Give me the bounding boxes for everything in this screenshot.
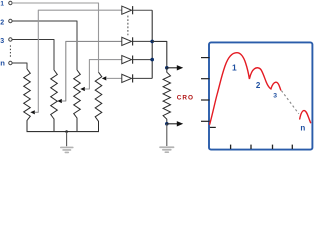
diode D4 [122,74,133,82]
potentiometer R3 body [74,70,81,132]
CRO top connection arrow [177,65,183,70]
input terminal n [9,61,12,64]
vertical axis tick 3 [201,99,210,101]
svg-text:3: 3 [273,92,277,99]
potentiometer R4 body [95,72,102,131]
diode D3 [122,56,133,64]
input terminal 2 [9,19,12,22]
wire from terminal 1 to top of potentiometer R4 [12,3,98,72]
horizontal axis tick 1 [230,145,232,149]
wire from terminal 2 to top of potentiometer R3 [12,21,77,70]
potentiometer R1 body [24,69,31,132]
junction at bus and D2 [150,40,154,44]
potentiometer R1 wiper arrow [30,110,35,114]
ellipsis dashed line between D1 and D2 [127,16,129,36]
potentiometer R2 wiper arrow [57,99,62,103]
wire D4 cathode to output bus [133,77,153,79]
potentiometer R2 body [51,70,58,132]
waveform trace peak n [300,111,311,123]
waveform trace peaks 1 to 3 [210,53,281,125]
wire from bus to CRO branch [152,41,167,67]
output bus vertical wire [151,10,153,78]
junction node CRO top [165,66,169,70]
dashed continuation between peak 3 and peak n [281,91,298,114]
CRO bottom connection arrow [177,121,183,126]
resistor R5 (CRO load) [163,68,170,124]
vertical axis tick 1 [201,57,210,59]
CRO screen frame [209,42,312,149]
ground symbol left [60,147,74,154]
bottom common wire joining potentiometer bottoms [27,131,100,133]
svg-text:3: 3 [0,38,4,45]
ground symbol right [159,146,174,153]
horizontal axis tick 3 [272,145,274,149]
junction at bus and D3 [150,58,154,62]
diode D2 [122,37,133,45]
potentiometer R4 wiper arrow [102,76,107,80]
wire from R4 wiper to diode D4 anode [106,77,122,79]
svg-text:1: 1 [0,0,4,7]
wire stub to CRO bottom arrow [167,123,177,125]
diode D1 [122,6,133,14]
wire CRO bottom node to ground [166,124,168,146]
svg-text:CRO: CRO [177,95,194,102]
vertical axis tick 4 [201,120,210,122]
wire D3 cathode to output bus [133,59,153,61]
wire common bus to ground [66,132,68,147]
wire from R1 wiper up to diode D1 anode [35,10,122,112]
wire from R2 wiper up to diode D2 anode [62,41,122,101]
input terminal 3 [9,38,12,41]
svg-text:n: n [300,123,305,132]
svg-text:1: 1 [232,63,237,73]
svg-text:2: 2 [256,81,261,90]
wire from terminal n to top of potentiometer R1 [12,63,27,69]
wire stub to CRO top arrow [167,67,177,69]
wire from terminal 3 to top of potentiometer R2 [12,40,54,71]
input terminal 1 [9,1,12,4]
vertical axis inner tick [210,126,216,128]
junction at ground stem [65,130,68,133]
wire from R3 wiper up to diode D3 anode [85,60,122,89]
svg-text:2: 2 [0,20,4,27]
svg-text:n: n [0,58,5,67]
junction node CRO bottom [165,122,169,126]
wire D1 cathode to output bus [133,9,153,11]
ellipsis dotted line between terminals 3 and n [9,45,11,57]
wire D2 cathode to output bus [133,40,153,42]
vertical axis tick 2 [201,78,210,80]
horizontal axis tick 2 [250,145,252,149]
horizontal axis tick 4 [291,145,293,149]
potentiometer R3 wiper arrow [80,87,85,91]
